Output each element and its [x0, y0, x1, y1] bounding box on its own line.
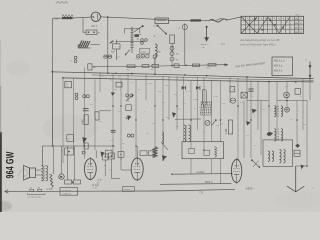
wire vertical: [302, 79, 304, 130]
capacitor box 0,1: [114, 82, 122, 91]
blob mid cluster: [126, 115, 132, 120]
cap bars small: [111, 130, 116, 132]
terminal circle antenna: [78, 45, 81, 48]
label fuse: [98, 33, 100, 35]
box above tube1: [105, 150, 112, 157]
black blob under arrow: [135, 34, 139, 37]
label 4uF: [111, 51, 116, 54]
wire earth link: [296, 165, 307, 167]
terminal circle left low: [82, 151, 85, 154]
arrow blob r3: [269, 132, 273, 137]
circle cross cap: [230, 98, 235, 103]
resistor box h5: [193, 64, 200, 66]
mains arrow down: [204, 26, 209, 42]
label 0,4M: [137, 34, 142, 36]
svg-text:8000 Ω: 8000 Ω: [205, 182, 213, 184]
resistor vertical small: [170, 35, 175, 53]
resistor box h2: [142, 65, 149, 68]
wire vertical: [257, 81, 259, 130]
wire vertical: [211, 81, 213, 142]
bottom wire arrow: [5, 190, 8, 194]
blob left of gridbox: [101, 152, 105, 158]
wire powerbox down 3: [220, 159, 222, 184]
box with X: [241, 92, 247, 98]
svg-text:kHz mit Prüfsender Type 468 a: kHz mit Prüfsender Type 468 a: [240, 43, 275, 47]
wire gridbox3 down: [121, 157, 131, 170]
heater coil chain: [170, 46, 187, 66]
blob left low: [82, 137, 87, 144]
electrolytic circle: [284, 92, 290, 98]
svg-text:an 85: an 85: [92, 188, 98, 190]
bus junction: [52, 71, 54, 73]
svg-text:M: M: [194, 108, 196, 110]
wire trimmer down: [184, 31, 186, 65]
svg-text:50000: 50000: [141, 51, 147, 53]
svg-text:Dr: Dr: [158, 50, 161, 53]
wire vertical: [145, 74, 147, 100]
junction circle b: [145, 39, 148, 42]
wire vertical: [276, 82, 278, 129]
wire vertical: [268, 82, 270, 132]
oscillator coil: [184, 125, 191, 142]
wire vertical: [84, 68, 86, 159]
table header mark: [296, 15, 299, 17]
svg-text:0,1M: 0,1M: [82, 119, 84, 124]
IF transformer dotted can: [200, 102, 212, 116]
resistor hatch vertical: [152, 147, 157, 157]
arrow blob r1: [252, 109, 257, 114]
boxed label 50000/2000: [60, 188, 78, 196]
wire vertical: [229, 78, 231, 103]
label at output tube: [97, 179, 102, 185]
wire vertical: [120, 79, 122, 160]
handwritten note: [235, 61, 266, 69]
wire vertical: [94, 79, 96, 150]
resistor box h1: [127, 65, 135, 68]
arrow blob near earth line: [301, 165, 305, 170]
trimmer circle right: [285, 107, 290, 112]
wire powerbox down 1: [190, 159, 192, 174]
note line 1 under table: [240, 38, 280, 42]
svg-text:2 000 Ω: 2 000 Ω: [62, 193, 70, 195]
arrow heater line: [225, 63, 229, 66]
link wire right2: [277, 100, 307, 102]
wire vert bl2: [61, 146, 63, 174]
page edge bar left: [0, 40, 2, 212]
svg-text:50000: 50000: [124, 189, 131, 191]
svg-text:0,3M: 0,3M: [226, 129, 228, 134]
wire gridbox1 down: [104, 160, 106, 176]
label between tubes 2: [109, 170, 113, 172]
wire vertical: [250, 81, 252, 158]
svg-text:0,5M: 0,5M: [193, 99, 198, 101]
label AZ1: [91, 24, 97, 28]
resistor box right: [295, 89, 300, 95]
bottom long wire: [5, 189, 235, 191]
grid cap box 1: [103, 154, 109, 160]
label under tube1 row2: [92, 188, 98, 190]
svg-text:964 GW: 964 GW: [4, 151, 16, 178]
svg-text:AB4 6 a: AB4 6 a: [274, 65, 283, 68]
wire tube2 top: [136, 146, 138, 157]
boxes above tube2: [140, 151, 155, 156]
bus junction: [154, 73, 156, 75]
bus line C: [92, 75, 314, 80]
wire powerbox down 2: [211, 159, 213, 174]
box left low 2: [65, 148, 74, 155]
resistor 1W (mains dropper): [62, 15, 73, 20]
arrow blob bl: [162, 155, 167, 160]
label at terminals: [116, 56, 121, 59]
bus line A: [51, 72, 314, 79]
svg-text:·s: ·s: [289, 23, 291, 25]
data box row 1: [274, 60, 285, 63]
label 220V: [201, 44, 208, 49]
wire vertical: [260, 101, 262, 156]
svg-text:die Abgleichung erfolgt nur be: die Abgleichung erfolgt nur bei 468: [240, 38, 280, 42]
table right column text: [289, 19, 303, 34]
wire top feed left: [53, 17, 62, 19]
box small in pack: [189, 149, 194, 154]
svg-text:770: 770: [199, 192, 204, 195]
label 100: [176, 54, 180, 56]
tube 3 ECH: [231, 158, 241, 184]
svg-text:≥0,05μF: ≥0,05μF: [196, 171, 205, 174]
box left low 1: [67, 135, 74, 142]
svg-text:0,1: 0,1: [68, 138, 71, 140]
wire h mid-low: [175, 118, 201, 120]
capacitor bars right: [248, 89, 253, 91]
IF coil pair upper: [274, 106, 282, 117]
svg-text:·s: ·s: [289, 19, 291, 21]
bus junction: [131, 73, 133, 75]
speaker: [24, 165, 36, 180]
label phi8: [220, 123, 224, 126]
arrow blob mid: [111, 92, 115, 96]
coil small mid: [162, 132, 164, 144]
bracket under terminals: [28, 193, 46, 198]
label 0,1uF bottom: [92, 184, 100, 187]
svg-text:·s: ·s: [289, 32, 291, 34]
wire vertical: [162, 76, 164, 160]
bus junction: [309, 78, 311, 80]
data box row 2: [274, 65, 283, 68]
bus junction: [268, 81, 270, 83]
wire vertical: [286, 82, 288, 107]
switch near output tube: [251, 159, 260, 168]
note line 2 under table: [240, 43, 275, 47]
barretter box: [155, 15, 169, 23]
resistor vertical 30: [88, 64, 92, 70]
wire vertical: [73, 78, 75, 150]
bus junction: [246, 76, 248, 78]
tube lineup table: [241, 16, 303, 33]
label right of arrow: [313, 186, 315, 190]
wire vertical: [203, 77, 205, 150]
title 964 GW: [4, 151, 16, 178]
diag arrow osc: [212, 119, 218, 126]
arrow blob r2: [246, 121, 251, 126]
boxed label near tube2: [123, 187, 135, 192]
junction circle a: [141, 39, 144, 45]
data box: [272, 57, 293, 76]
heater terminal trio: [137, 55, 150, 58]
wire rectifier to right: [101, 17, 169, 20]
arrow tap 1: [182, 86, 186, 90]
svg-text:AB6 6 a: AB6 6 a: [274, 70, 283, 73]
label 1W: [54, 18, 59, 21]
pencil scribble: [18, 169, 29, 179]
label h6: [207, 67, 211, 69]
label Dr: [158, 50, 161, 53]
label 50: [137, 38, 140, 40]
bus junction: [62, 77, 64, 79]
svg-text:1 W: 1 W: [54, 18, 59, 21]
svg-text:an Sprechader: an Sprechader: [28, 196, 42, 199]
arrow tick left: [110, 41, 114, 44]
label between tubes 1: [104, 165, 107, 167]
wire gridbox2 down: [112, 159, 121, 179]
svg-text:AZ 1: AZ 1: [91, 24, 97, 28]
svg-text:≈2,5W: ≈2,5W: [46, 188, 53, 191]
wire pot row: [116, 40, 146, 42]
mains switch contact: [157, 25, 167, 35]
rectifier tube AZ1: [91, 12, 100, 21]
wire barretter to resistor: [169, 19, 191, 21]
svg-text:4μF: 4μF: [111, 51, 116, 54]
output tube ECL: [84, 157, 96, 181]
svg-text:MW 575: MW 575: [294, 32, 303, 34]
label h1: [127, 69, 131, 71]
wire hatch to node: [91, 44, 101, 46]
bus junction: [115, 72, 117, 74]
svg-text:kHz: kHz: [296, 15, 299, 17]
diamond arrow 1: [266, 132, 271, 136]
resistor box h3: [152, 65, 159, 68]
wire vert bl3: [67, 146, 69, 180]
wire vert bl4: [73, 146, 75, 180]
power pack box: [182, 142, 223, 159]
wire vertical: [127, 74, 129, 103]
label 40: [176, 59, 179, 61]
IF can coil left: [268, 151, 274, 162]
svg-text:2M: 2M: [118, 76, 121, 78]
wire y184: [160, 183, 232, 186]
heater terminal pair 1: [104, 55, 112, 58]
wire h link low: [99, 110, 111, 112]
electrolytic bottom: [59, 174, 64, 179]
coil in pack: [215, 147, 217, 157]
svg-text:AB2 0,1 a: AB2 0,1 a: [274, 60, 285, 63]
fuse holder box: [86, 30, 97, 34]
chassis box line: [42, 146, 115, 166]
box mid cluster: [126, 105, 132, 111]
wire vertical: [197, 77, 199, 130]
top edge tick marks: [56, 2, 68, 4]
IF can coil right: [280, 150, 286, 164]
earth arrow large: [287, 166, 304, 192]
tube 2 EBF: [131, 157, 143, 182]
heater line T2: [92, 65, 225, 67]
wire vertical: [309, 79, 311, 101]
label 2,5W: [46, 188, 53, 191]
diag arrow small: [125, 49, 130, 55]
node junction on anode wire: [107, 16, 109, 18]
wire vertical: [99, 73, 101, 92]
svg-text:1M: 1M: [158, 91, 161, 93]
svg-text:A-2: A-2: [221, 43, 225, 46]
data box row 3: [274, 70, 283, 73]
trimmer cap with circle: [182, 23, 187, 30]
wire vertical: [168, 76, 170, 120]
potentiometer ladder: [130, 25, 144, 53]
link wire right1: [247, 100, 269, 102]
aerial stub: [305, 59, 311, 79]
corrected wavy wire: [209, 18, 228, 22]
bus junction: [107, 72, 109, 74]
misc value labels: [90, 76, 308, 147]
wire vertical: [62, 78, 64, 163]
IF can box: [263, 140, 293, 166]
wire scribble to table: [228, 17, 241, 20]
tube pin circle: [205, 120, 210, 125]
grid cap box 2: [109, 153, 115, 159]
grid cap box 3: [118, 152, 124, 158]
label 770: [199, 192, 204, 195]
wire vertical left rail: [52, 18, 54, 146]
wire resistor to scribble: [201, 19, 209, 21]
resistor box s1: [230, 87, 235, 92]
small value box: [65, 81, 72, 88]
wire vertical: [237, 78, 239, 160]
terminal pair lower: [75, 93, 78, 99]
svg-text:0,1μF: 0,1μF: [135, 59, 141, 61]
terminal boxes on bottom line: [30, 187, 42, 191]
label c: [179, 27, 181, 30]
resistor boxes bottom pair: [65, 180, 81, 184]
wire speaker-transformer top: [36, 170, 42, 175]
wire vertical: [176, 76, 178, 130]
hairpin coil loop: [202, 89, 206, 105]
capacitor bars left: [83, 109, 89, 111]
label under barretter: [154, 24, 160, 27]
wire vertical: [112, 73, 114, 159]
wire vertical: [306, 101, 308, 167]
label M2: [194, 108, 196, 110]
wire vertical: [135, 79, 137, 158]
terminal single right: [153, 55, 156, 65]
wire tube1 top: [95, 150, 97, 158]
zigzag resistor diag: [49, 174, 53, 188]
wire vertical: [220, 81, 222, 142]
choke coil Dr: [155, 44, 157, 74]
svg-text:MW 575: MW 575: [294, 28, 303, 30]
terminal pair b: [70, 56, 77, 62]
svg-text:220V~: 220V~: [201, 44, 208, 46]
svg-text:MW 575: MW 575: [294, 19, 303, 21]
label h3: [151, 69, 154, 71]
bus line B: [63, 78, 314, 82]
svg-text:50 000 Ω: 50 000 Ω: [61, 190, 71, 192]
arrow tap 2: [196, 86, 200, 90]
label 8000: [205, 182, 213, 184]
switch circles left: [83, 95, 90, 98]
cap boxes right of can: [294, 150, 300, 156]
svg-text:·s: ·s: [289, 28, 291, 30]
label AM2 italic: [244, 186, 254, 191]
wire vertical: [243, 101, 245, 159]
resistor 0,1M vertical: [82, 115, 88, 125]
pot top box: [125, 29, 140, 34]
label M1: [177, 108, 179, 110]
label switch: [154, 36, 156, 38]
svg-text:0,2M: 0,2M: [148, 83, 153, 85]
wire vertical: [246, 77, 248, 121]
IF coil pair lower: [274, 129, 283, 141]
diag switch mid: [161, 142, 168, 150]
boxed label 50000 top: [140, 49, 150, 54]
circle pair above tube2: [127, 134, 134, 137]
label 30: [93, 67, 96, 69]
bus junction: [295, 81, 297, 83]
wire vertical: [52, 72, 54, 146]
resistor 0,3M vertical: [226, 120, 233, 134]
svg-text:AM2··: AM2··: [244, 186, 254, 191]
capacitor block 4uF: [113, 40, 120, 61]
wire y174: [171, 173, 232, 175]
wire vertical: [183, 77, 185, 142]
svg-text:M: M: [177, 108, 179, 110]
wire vertical: [154, 80, 156, 151]
resistor box v4: [174, 64, 179, 68]
wire resistor to rectifier tube: [73, 17, 92, 18]
wire vertical: [296, 101, 298, 144]
svg-text:MW 575: MW 575: [294, 23, 303, 25]
label Az: [221, 43, 225, 46]
bus junction: [206, 75, 208, 77]
label 0,1uF top: [135, 59, 141, 61]
label 0,05uF: [196, 171, 205, 174]
resistor series bar: [191, 19, 202, 21]
wire vertical from rectifier: [107, 17, 109, 72]
resistor in pack: [204, 150, 210, 155]
resistor box h6: [208, 64, 216, 67]
resistor small left low: [84, 143, 88, 149]
wire to fuse box: [83, 18, 86, 33]
svg-text:≈1,9: ≈1,9: [97, 179, 102, 182]
junction dots: [52, 100, 308, 167]
arrow blob osc: [172, 112, 176, 118]
wire vertical: [190, 80, 192, 148]
bus junction: [184, 74, 186, 76]
resistor vertical 2: [95, 112, 99, 120]
diamond arrow 2: [295, 144, 300, 148]
wire vert bl1: [52, 146, 54, 174]
switch circles mid: [126, 94, 134, 101]
antenna coil hatched block: [78, 41, 91, 49]
output transformer: [41, 166, 47, 181]
